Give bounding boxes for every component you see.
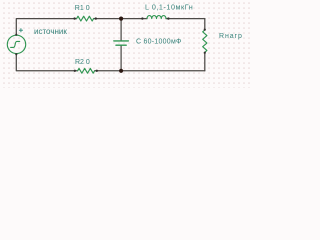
svg-text:C 60-1000мФ: C 60-1000мФ [136,39,182,46]
svg-text:Rнагр: Rнагр [219,33,243,40]
svg-text:R2 0: R2 0 [75,59,90,66]
svg-text:источник: источник [34,27,67,36]
svg-text:L 0,1-10мкГн: L 0,1-10мкГн [145,3,193,12]
svg-text:R1 0: R1 0 [75,5,90,12]
